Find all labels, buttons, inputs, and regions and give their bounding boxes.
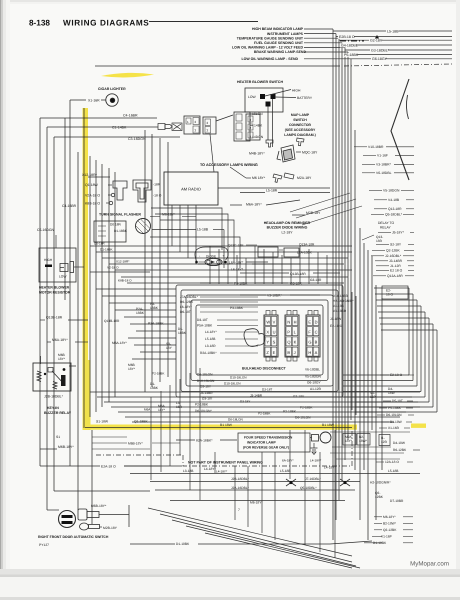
wire [182, 216, 196, 218]
svg-text:M4B-18Y*: M4B-18Y* [249, 152, 265, 156]
svg-text:S2-18Y: S2-18Y [390, 243, 402, 247]
wire bundle blob [244, 329, 265, 347]
nest feed vertical [227, 252, 229, 284]
wire to HIGH label [265, 90, 291, 97]
right edge bottom link 6 [355, 401, 429, 403]
diode junction dots [195, 261, 198, 264]
wire from radio [218, 187, 330, 189]
svg-text:12R: 12R [381, 440, 388, 444]
C4 wire bottom [40, 465, 75, 467]
wire C1 horizontal [47, 126, 72, 128]
wire [92, 442, 127, 444]
svg-text:BATTERY: BATTERY [297, 96, 313, 100]
svg-text:V5-18DGN: V5-18DGN [305, 375, 322, 379]
relay wire right [69, 365, 76, 367]
left vertical wire x65 [64, 118, 66, 300]
svg-text:BULKHEAD DISCONNECT: BULKHEAD DISCONNECT [242, 367, 287, 371]
fan wire 7 horizontal [304, 58, 351, 60]
wire [354, 146, 367, 148]
svg-text:(FOR REVERSE GEAR ONLY): (FOR REVERSE GEAR ONLY) [243, 446, 289, 450]
svg-text:INSTRUMENT LAMPS: INSTRUMENT LAMPS [267, 32, 304, 36]
right edge vertical 4 [420, 306, 422, 392]
svg-text:M6B-18Y*: M6B-18Y* [58, 445, 74, 449]
right bundle vertical 12 [371, 256, 373, 430]
svg-text:18Y*: 18Y* [158, 408, 166, 412]
right bundle vertical 10 [363, 243, 365, 470]
wire [373, 275, 386, 277]
svg-text:L4-18Y*: L4-18Y* [324, 466, 336, 470]
svg-text:HIGH BEAM INDICATOR LAMP: HIGH BEAM INDICATOR LAMP [252, 27, 304, 31]
svg-text:C4-16BR: C4-16BR [123, 114, 138, 118]
wire [376, 461, 384, 463]
wire [250, 136, 251, 138]
wire [124, 465, 160, 467]
svg-text:J5-18Y*: J5-18Y* [392, 231, 405, 235]
corner wire 4 [150, 237, 240, 268]
corner wire 2 [155, 214, 228, 256]
wire [371, 213, 384, 215]
svg-text:D1-18BK: D1-18BK [100, 248, 113, 252]
svg-text:P3A-18BK: P3A-18BK [148, 322, 164, 326]
T plug icon 2 [133, 180, 151, 202]
lower band wire 2 [97, 396, 412, 398]
wire [408, 243, 414, 245]
turn signal flasher connector box [94, 221, 126, 242]
wire [176, 439, 195, 441]
corner wire 1 [151, 208, 222, 250]
wire [40, 319, 45, 321]
nest feed vertical [281, 255, 283, 284]
svg-text:C3-16DGN: C3-16DGN [128, 137, 146, 141]
bus vertical 3 [95, 160, 97, 412]
nest feed vertical [209, 246, 211, 284]
svg-text:Q13A-18R: Q13A-18R [387, 274, 403, 278]
right bundle vertical 4 [341, 64, 343, 480]
left vertical wire C1 [46, 127, 48, 510]
bus vertical to door switch [91, 430, 93, 524]
connector block 3-cell [234, 112, 250, 141]
bulkhead nest rectangle 3 [186, 295, 333, 386]
svg-text:M6B-18Y*: M6B-18Y* [91, 504, 107, 508]
connector block mate [203, 117, 216, 134]
svg-text:V2A-18 O: V2A-18 O [85, 194, 100, 198]
wire [407, 400, 413, 402]
svg-text:CIGAR LIGHTER: CIGAR LIGHTER [98, 87, 126, 91]
svg-text:J: J [294, 350, 296, 355]
svg-text:-18 O: -18 O [153, 194, 162, 198]
connector block pins 1-3 [184, 116, 200, 134]
right edge top bend 3 [376, 299, 417, 301]
svg-text:D6-18LGN: D6-18LGN [228, 418, 243, 422]
diagonal wire 3 [302, 206, 362, 225]
wire [200, 296, 258, 298]
svg-text:D6-18LGN: D6-18LGN [197, 373, 213, 377]
right edge top bend 4 [377, 305, 421, 307]
wire L5 right [213, 229, 224, 231]
wire [363, 154, 376, 156]
right edge bottom link 1 [343, 374, 409, 376]
wire [200, 301, 258, 303]
flasher can [136, 219, 151, 234]
wire [47, 341, 51, 343]
svg-text:M6A: M6A [144, 408, 151, 412]
nest feed vertical [245, 258, 247, 284]
wire door bracket vertical [128, 505, 130, 527]
svg-text:L4-18Y*: L4-18Y* [205, 330, 217, 334]
right bundle vertical 6 [347, 64, 349, 440]
nest feeder 8 [128, 337, 176, 339]
nest feed vertical [299, 246, 301, 284]
nest feeder 3 [109, 302, 176, 304]
svg-text:J2-16DBL*: J2-16DBL* [385, 254, 402, 258]
right bundle vertical 14 [355, 296, 357, 415]
svg-text:G2-18V: G2-18V [370, 39, 383, 43]
right bundle vertical 7 [350, 64, 352, 420]
wire [313, 272, 340, 274]
svg-text:G3-18R: G3-18R [310, 278, 322, 282]
nest feeder 9 [134, 344, 176, 346]
plug icon M6 [273, 174, 282, 182]
wire y459 right [336, 458, 400, 460]
plug icon MQC [297, 138, 305, 146]
highlighter marks [83, 73, 427, 430]
nest feed vertical [317, 252, 319, 284]
svg-text:Q1-18W: Q1-18W [85, 183, 99, 187]
svg-text:L4-18Y*: L4-18Y* [310, 459, 322, 463]
wire [279, 249, 283, 251]
svg-text:V6-18DBL: V6-18DBL [305, 368, 320, 372]
svg-text:D7-18BR: D7-18BR [390, 499, 404, 503]
plug icon M2B [80, 523, 89, 530]
svg-text:M2B-18Y: M2B-18Y [103, 526, 118, 530]
wire [379, 407, 387, 409]
right edge bottom link 5 [343, 396, 425, 398]
wire connector to radio [210, 134, 214, 172]
svg-text:7: 7 [238, 508, 240, 512]
svg-text:P3-18BK: P3-18BK [230, 306, 244, 310]
connector box Q13C [258, 247, 278, 257]
svg-text:P: P [287, 330, 290, 335]
stub M6 [246, 177, 251, 179]
wire [250, 125, 253, 127]
mid band wire 5 [115, 269, 352, 271]
mid band wire 4 [109, 263, 344, 265]
svg-text:E2A-18 O: E2A-18 O [101, 465, 116, 469]
right edge vertical 5 [424, 312, 426, 397]
svg-text:V5-18DGN: V5-18DGN [383, 189, 400, 193]
svg-text:18W: 18W [388, 391, 396, 395]
svg-text:X12-18R*: X12-18R* [116, 260, 130, 264]
wire [266, 200, 300, 205]
svg-text:DELAY TO: DELAY TO [378, 221, 395, 225]
svg-text:P2-18BK: P2-18BK [152, 372, 165, 376]
svg-text:X: X [266, 330, 269, 335]
fan wire 1 horizontal [304, 28, 333, 30]
svg-text:MyMopar.com: MyMopar.com [410, 561, 449, 568]
wire [376, 269, 389, 271]
bottom wire 1 [130, 473, 420, 475]
right bundle vertical 11 [367, 250, 369, 540]
bottom cross vertical 1 [234, 466, 236, 520]
heater switch drop 2 [272, 99, 274, 147]
right bundle vertical 5 [344, 64, 346, 460]
wire [108, 184, 112, 186]
svg-text:V10-18BR: V10-18BR [368, 145, 384, 149]
key-in buzzer relay box [33, 363, 71, 391]
C3 wire bottom [54, 490, 150, 492]
svg-text:K: K [294, 340, 297, 345]
lower band wire 1 [90, 391, 420, 393]
svg-text:J2B-18DBL*: J2B-18DBL* [44, 395, 64, 399]
diagonal wire 1 [290, 193, 350, 212]
svg-text:J3-14BR: J3-14BR [389, 259, 403, 263]
dash-dot boundary [96, 454, 183, 456]
right edge vertical 7 [432, 324, 434, 407]
bottom diagonal wire 5 [205, 533, 352, 568]
bottom cross vertical 2 [247, 466, 249, 527]
svg-text:TO ACCESSORY LAMPS WIRING: TO ACCESSORY LAMPS WIRING [200, 163, 258, 167]
wire [374, 199, 387, 201]
stub [364, 542, 382, 544]
bottom cross vertical 5 [289, 430, 291, 479]
right edge top bend 7 [380, 323, 433, 325]
wire to lamp [310, 437, 312, 439]
wire y449 [92, 448, 150, 450]
wire M6A mid [230, 204, 242, 206]
right edge top bend 2 [375, 293, 413, 295]
radio drop 2 [179, 205, 181, 252]
svg-text:Q2-12BK: Q2-12BK [386, 249, 401, 253]
lower band wire 7 [132, 421, 394, 423]
nest feed vertical [272, 252, 274, 284]
wire [252, 263, 300, 265]
svg-text:P2-18BK: P2-18BK [195, 403, 209, 407]
svg-text:D10-18LGN: D10-18LGN [230, 376, 247, 380]
svg-text:8-138: 8-138 [29, 19, 50, 28]
wire [394, 163, 414, 165]
node [110, 98, 115, 103]
wire [200, 311, 258, 313]
right edge bottom link 8 [355, 411, 437, 413]
svg-text:LOW: LOW [248, 95, 256, 99]
wire [408, 265, 414, 267]
svg-text:E2B-18 O: E2B-18 O [339, 35, 355, 39]
wire [200, 282, 233, 284]
bottom cross vertical 7 [319, 452, 321, 552]
right edge top bend 6 [379, 317, 429, 319]
svg-text:J7A-16DBL*: J7A-16DBL* [180, 295, 199, 299]
wire [240, 272, 289, 274]
wire [362, 163, 375, 165]
cigar lighter symbol [106, 94, 118, 106]
bottom wire 2 [150, 481, 360, 483]
svg-text:S1: S1 [56, 435, 60, 439]
radio drop 3 [187, 205, 189, 258]
svg-text:LOW OIL WARNING LAMP - 12 VO: LOW OIL WARNING LAMP - 12 VOLT FEED [232, 46, 303, 50]
svg-text:L3-18R: L3-18R [205, 344, 216, 348]
wire [106, 202, 109, 204]
fan wire 2 drop [335, 34, 337, 64]
wire [404, 249, 414, 251]
lower vertical 2 [160, 391, 162, 472]
fan wire 3 to edge [339, 39, 452, 41]
right edge bottom link 2 [343, 380, 413, 382]
lower vertical 5 [189, 373, 191, 490]
svg-text:L7A-18BK: L7A-18BK [297, 251, 313, 255]
bottom cross vertical 4 [274, 452, 276, 540]
lower vertical 6 [199, 368, 201, 500]
fan wire 4 horizontal [304, 42, 342, 44]
svg-text:C1-14BK: C1-14BK [112, 126, 127, 130]
svg-text:M6B-18Y*: M6B-18Y* [128, 442, 144, 446]
svg-text:14BK: 14BK [254, 124, 263, 128]
svg-text:X1-16R: X1-16R [88, 99, 100, 103]
wire [376, 265, 389, 267]
right bundle vertical 9 [359, 228, 361, 520]
fan wire 2 horizontal [304, 33, 336, 35]
bus vertical 1 [77, 152, 79, 510]
radio drop 1 [171, 205, 173, 246]
heater blower switch box [245, 88, 283, 112]
wire X12 [88, 176, 110, 178]
wire y453 right [330, 452, 404, 454]
nest feeder 1 [96, 288, 176, 290]
wire from connector up [216, 115, 233, 121]
wire [408, 414, 414, 416]
svg-text:D6-18LGN*: D6-18LGN* [195, 409, 213, 413]
stub [374, 529, 382, 531]
svg-text:18Y: 18Y [166, 346, 173, 350]
wire to BATTERY label [275, 96, 296, 99]
wire [378, 231, 391, 233]
highlighted wire S1 horizontal [85, 427, 352, 429]
plug icon M2A [284, 173, 294, 179]
wire [406, 199, 414, 201]
lower band wire 3 [104, 401, 418, 403]
svg-text:G4-18DBL: G4-18DBL [341, 44, 358, 48]
svg-text:L4-18Y*: L4-18Y* [204, 467, 216, 471]
wire [225, 345, 258, 347]
right edge vertical 8 [436, 330, 438, 412]
wire [217, 319, 258, 321]
svg-text:J3-14BR: J3-14BR [250, 394, 263, 398]
svg-text:D6-18LGN: D6-18LGN [295, 416, 311, 420]
svg-text:L5-18B: L5-18B [197, 228, 209, 232]
wire [406, 421, 412, 423]
wire [407, 260, 414, 262]
mid band wire 2 [96, 251, 352, 253]
center vertical 2 [151, 134, 153, 387]
svg-text:H: H [308, 350, 311, 355]
svg-text:A: A [315, 350, 318, 355]
nest feeder 4 [115, 309, 176, 311]
svg-text:V6-18DBL: V6-18DBL [376, 171, 392, 175]
stub [374, 522, 382, 524]
wire [403, 529, 413, 531]
svg-text:HEATER BLOWER: HEATER BLOWER [39, 286, 70, 290]
wire stub [101, 99, 106, 101]
wire [198, 263, 230, 265]
svg-text:E2 18 O: E2 18 O [390, 269, 403, 273]
svg-text:Y: Y [266, 340, 269, 345]
svg-text:N: N [287, 319, 290, 324]
svg-text:D4-18W: D4-18W [393, 441, 406, 445]
bottom wire 4 [170, 500, 345, 502]
bulkhead connector block 3 [306, 315, 320, 357]
lower band wire 4 [111, 406, 420, 408]
wire [246, 244, 257, 246]
wire [403, 542, 413, 544]
nest feeder 2 [102, 295, 176, 297]
wire C4 to connector [72, 117, 157, 119]
plug icon M6B [78, 509, 87, 520]
lower band wire 6 [125, 416, 400, 418]
wire [362, 172, 375, 174]
svg-text:G6-18GY: G6-18GY [307, 381, 322, 385]
fan wire 1 drop [332, 29, 334, 64]
svg-text:S: S [273, 340, 276, 345]
left vertical wire C4 [39, 118, 41, 466]
heater switch drop 1 [267, 107, 269, 141]
svg-text:U: U [273, 330, 276, 335]
wire [152, 442, 180, 444]
wire [403, 516, 413, 518]
svg-text:12BK: 12BK [375, 495, 384, 499]
bottom diagonal wire 1 [148, 508, 352, 556]
svg-text:L3-18B: L3-18B [183, 469, 193, 473]
svg-text:C: C [315, 330, 318, 335]
svg-text:L5-18B: L5-18B [388, 469, 398, 473]
wire C1 to connector [72, 126, 158, 128]
wire [369, 189, 382, 191]
fan wire 6 horizontal [304, 51, 348, 53]
bulkhead nest rectangle 2 [181, 290, 338, 392]
svg-text:M6A-18Y*: M6A-18Y* [246, 203, 262, 207]
svg-text:SWITCH: SWITCH [293, 118, 307, 122]
wire [413, 449, 420, 451]
svg-text:H: H [294, 319, 297, 324]
nest feeder 10 [140, 351, 176, 353]
right bundle vertical 1 [332, 64, 334, 540]
wire E2A continue [124, 465, 182, 467]
mid band wire 6 [121, 276, 348, 278]
wire [150, 216, 160, 218]
wire [403, 535, 413, 537]
svg-text:M6 18Y*: M6 18Y* [252, 176, 266, 180]
corner wire 3 [160, 220, 234, 262]
svg-text:M6-18Y*: M6-18Y* [383, 515, 396, 519]
svg-text:P5A-18BK: P5A-18BK [197, 324, 213, 328]
svg-text:B1 18W: B1 18W [322, 423, 335, 427]
bottom diagonal wire 3 [172, 520, 356, 566]
right bundle vertical 3 [338, 64, 340, 500]
indicator lamp symbol [320, 432, 331, 443]
svg-text:V3-18BR*: V3-18BR* [376, 163, 392, 167]
connector box E2 [382, 286, 408, 299]
svg-text:18BK: 18BK [136, 311, 145, 315]
svg-text:Q2-12BK: Q2-12BK [383, 528, 397, 532]
svg-text:D3-18T: D3-18T [197, 318, 208, 322]
wire M6B [99, 514, 129, 516]
svg-text:MAP LAMP: MAP LAMP [291, 113, 310, 117]
svg-text:L5-18B: L5-18B [280, 469, 290, 473]
diode loop wire [195, 247, 228, 261]
wire [255, 282, 288, 284]
lower band wire 5 [118, 411, 406, 413]
terminal high [260, 94, 265, 99]
wire [408, 374, 414, 376]
right edge top bend 5 [378, 311, 425, 313]
